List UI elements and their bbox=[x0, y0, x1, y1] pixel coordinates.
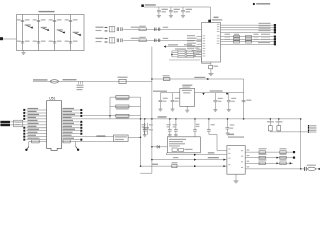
svg-text:U51: U51 bbox=[49, 96, 55, 100]
